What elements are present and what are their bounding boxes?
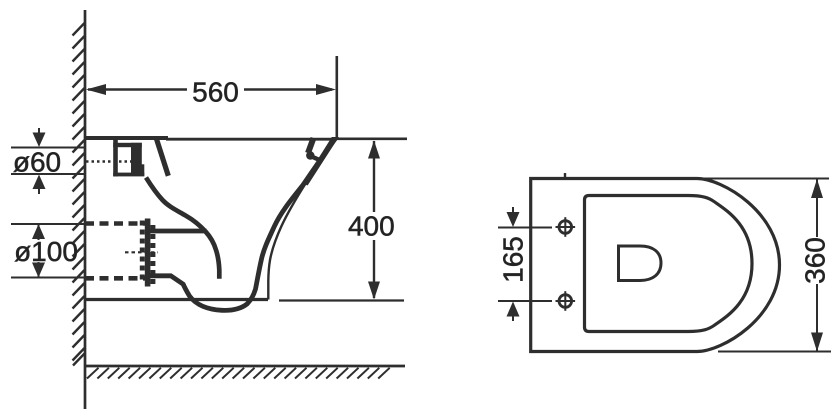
svg-text:ø60: ø60 bbox=[13, 147, 61, 178]
svg-text:400: 400 bbox=[348, 211, 395, 242]
svg-text:ø100: ø100 bbox=[14, 236, 78, 267]
svg-text:560: 560 bbox=[192, 77, 239, 108]
svg-text:165: 165 bbox=[498, 236, 529, 283]
svg-text:360: 360 bbox=[799, 237, 830, 284]
